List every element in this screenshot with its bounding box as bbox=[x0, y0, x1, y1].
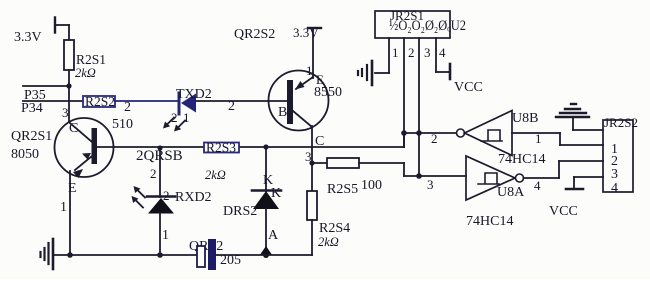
svg-text:R2S4: R2S4 bbox=[319, 221, 350, 236]
connector JR2S1 bbox=[375, 8, 466, 60]
svg-text:VCC: VCC bbox=[454, 80, 483, 95]
svg-text:1: 1 bbox=[535, 131, 542, 146]
svg-text:½O₂O₂Ø₂ØₒU2: ½O₂O₂Ø₂ØₒU2 bbox=[389, 18, 466, 34]
svg-text:R2S2: R2S2 bbox=[85, 94, 115, 109]
node DRS2 tap bbox=[263, 144, 268, 149]
node RXD2 tap bbox=[157, 145, 162, 150]
svg-text:74HC14: 74HC14 bbox=[466, 214, 513, 229]
ground above JR2S2 bbox=[556, 104, 603, 130]
svg-text:8050: 8050 bbox=[11, 147, 39, 162]
svg-text:1: 1 bbox=[392, 45, 399, 60]
svg-text:2: 2 bbox=[150, 166, 157, 181]
resistor R2S2 bbox=[83, 94, 115, 109]
wire JR2S1 pin4 to VCC bbox=[436, 38, 450, 79]
svg-text:R2S1: R2S1 bbox=[76, 52, 106, 67]
ground JR2S1 pin1 bbox=[358, 61, 372, 85]
wire base row node C bbox=[97, 146, 404, 148]
svg-text:74HC14: 74HC14 bbox=[498, 152, 545, 167]
svg-text:JR2S2: JR2S2 bbox=[604, 115, 638, 130]
svg-text:2: 2 bbox=[408, 45, 415, 60]
svg-text:VCC: VCC bbox=[549, 204, 578, 219]
node U8A input junction bbox=[416, 173, 422, 179]
power 3.3V at QR2S2 emitter bbox=[293, 25, 321, 40]
node RXD2 bottom junction bbox=[157, 252, 163, 258]
svg-text:K: K bbox=[271, 186, 281, 201]
svg-text:QR2S1: QR2S1 bbox=[11, 129, 52, 144]
svg-text:4: 4 bbox=[534, 178, 541, 193]
svg-text:3: 3 bbox=[611, 167, 618, 182]
svg-text:100: 100 bbox=[361, 178, 382, 193]
LED TXD2 bbox=[163, 87, 212, 132]
wire JR2S1 pin1 to ground bbox=[375, 38, 389, 73]
svg-text:2: 2 bbox=[124, 100, 131, 115]
svg-text:8550: 8550 bbox=[314, 85, 342, 100]
svg-text:DRS2: DRS2 bbox=[223, 204, 257, 219]
wire JR2S1 pin3 vertical bbox=[418, 38, 420, 176]
wire JR2S1 pin2 vertical bbox=[403, 38, 405, 147]
wire R2S5 jog to U8A input bbox=[404, 163, 466, 176]
diode DRS2 branch bbox=[223, 147, 281, 258]
svg-text:U8A: U8A bbox=[497, 185, 525, 200]
node P35 junction bbox=[66, 83, 71, 88]
wire JR2S2 pin3 to VCC bbox=[566, 177, 603, 189]
svg-text:A: A bbox=[268, 228, 279, 243]
svg-text:RXD2: RXD2 bbox=[175, 190, 212, 205]
wire R2S2 to TXD2 bbox=[115, 100, 177, 102]
svg-text:P34: P34 bbox=[21, 101, 43, 116]
node pin2 junction bbox=[401, 130, 407, 136]
svg-text:E: E bbox=[68, 181, 77, 196]
wire collector down bbox=[311, 147, 313, 191]
svg-text:C: C bbox=[69, 121, 78, 136]
svg-text:2: 2 bbox=[228, 99, 235, 114]
LED RXD2 branch bbox=[132, 148, 212, 255]
transistor QR2S1 bbox=[55, 105, 134, 255]
wire TXD2 to QR2S2 base bbox=[196, 100, 287, 102]
svg-text:2: 2 bbox=[431, 131, 438, 146]
wire node C to inverter row bbox=[404, 133, 456, 147]
node pin3 cross junction bbox=[416, 130, 422, 136]
resistor R2S3 bbox=[204, 140, 239, 182]
svg-text:U8B: U8B bbox=[512, 111, 538, 126]
svg-text:B: B bbox=[278, 105, 287, 120]
capacitor QRS2 bbox=[189, 239, 241, 270]
transistor QR2S2 bbox=[269, 28, 343, 164]
svg-text:R2S3: R2S3 bbox=[206, 140, 236, 155]
connector JR2S2 bbox=[603, 115, 638, 196]
svg-text:1: 1 bbox=[306, 63, 313, 78]
svg-text:3.3V: 3.3V bbox=[14, 30, 42, 45]
svg-text:QR2S2: QR2S2 bbox=[234, 27, 275, 42]
op-amp U8A inverter bbox=[427, 156, 525, 229]
bottom rail wire left bbox=[53, 254, 197, 256]
resistor R2S4 bbox=[307, 191, 350, 249]
svg-text:1: 1 bbox=[60, 200, 67, 215]
bottom rail wire right bbox=[216, 254, 312, 256]
svg-text:1: 1 bbox=[162, 228, 169, 243]
wire R2S1 to QR2S1 collector bbox=[68, 70, 70, 122]
svg-text:3: 3 bbox=[424, 45, 431, 60]
wire U8A output to JR2S2 pin2 bbox=[524, 161, 604, 193]
svg-text:3: 3 bbox=[62, 105, 69, 120]
node emitter QR2S1 junction bbox=[67, 252, 73, 258]
svg-text:4: 4 bbox=[611, 181, 618, 196]
resistor R2S5 bbox=[312, 158, 404, 197]
resistor R2S1 bbox=[64, 40, 106, 80]
svg-text:4: 4 bbox=[439, 45, 446, 60]
svg-text:2kΩ: 2kΩ bbox=[75, 66, 96, 80]
svg-text:C: C bbox=[315, 134, 324, 149]
svg-text:QRS2: QRS2 bbox=[189, 239, 223, 254]
svg-text:R2S5: R2S5 bbox=[327, 182, 358, 197]
svg-text:2kΩ: 2kΩ bbox=[318, 235, 339, 249]
svg-text:TXD2: TXD2 bbox=[176, 87, 212, 102]
node P35 bbox=[23, 86, 69, 103]
power 3.3V rail left bbox=[55, 18, 69, 41]
wire R2S4 to bottom rail bbox=[311, 220, 313, 255]
ground bottom left bbox=[41, 239, 54, 269]
wire U8B output to JR2S2 pin1 bbox=[512, 131, 603, 146]
node P34 bbox=[21, 101, 83, 116]
svg-text:3: 3 bbox=[427, 177, 434, 192]
node R2S5 tap bbox=[309, 160, 314, 165]
svg-text:510: 510 bbox=[112, 117, 133, 132]
svg-text:2: 2 bbox=[163, 188, 170, 203]
svg-text:3.3V: 3.3V bbox=[293, 25, 319, 40]
op-amp U8B inverter bbox=[431, 111, 545, 168]
svg-text:2kΩ: 2kΩ bbox=[205, 168, 226, 182]
